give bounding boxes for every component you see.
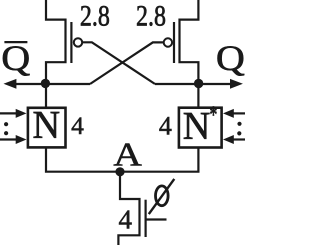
svg-text:N: N bbox=[33, 104, 61, 146]
svg-text:Q: Q bbox=[1, 39, 30, 79]
svg-text:4: 4 bbox=[159, 111, 172, 140]
svg-text:*: * bbox=[209, 103, 217, 129]
svg-text:A: A bbox=[113, 135, 142, 173]
svg-text:Q: Q bbox=[216, 39, 245, 79]
svg-text:2.8: 2.8 bbox=[80, 0, 110, 32]
svg-text:2.8: 2.8 bbox=[136, 0, 166, 32]
svg-text:N: N bbox=[183, 105, 211, 147]
svg-text:4: 4 bbox=[71, 111, 84, 140]
svg-text:4: 4 bbox=[118, 204, 132, 234]
